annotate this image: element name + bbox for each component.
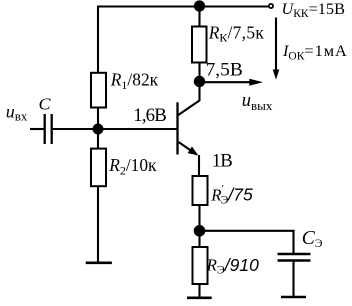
svg-text:R1/82к: R1/82к	[110, 70, 159, 92]
terminal UKK open circle	[269, 4, 273, 8]
svg-text:C: C	[39, 94, 52, 113]
capacitor C	[45, 114, 52, 144]
resistor R2	[91, 149, 106, 187]
node junction on rail above RK	[194, 0, 205, 11]
transistor collector lead	[178, 101, 200, 116]
resistor RE	[193, 247, 208, 284]
svg-text:R′Э/75: R′Э/75	[210, 183, 253, 207]
output arrow uvyh	[203, 79, 263, 86]
wire base node to R2	[97, 129, 99, 148]
ground below R2	[86, 261, 112, 264]
svg-text:1,6В: 1,6В	[133, 105, 166, 126]
wire R'E to emitter node	[198, 205, 200, 231]
transistor base bar	[176, 102, 178, 154]
wire capacitor to base node	[53, 128, 98, 130]
svg-text:RК/7,5к: RК/7,5к	[208, 22, 265, 44]
transistor emitter lead with arrow	[179, 142, 200, 177]
wire RE to ground	[198, 284, 200, 297]
node emitter junction	[194, 225, 206, 237]
current arrow IOK	[273, 18, 280, 80]
resistor RK	[192, 27, 207, 63]
ground below CE	[281, 296, 306, 299]
svg-text:7,5В: 7,5В	[206, 60, 243, 81]
wire top rail from R1 branch to UKK terminal	[98, 7, 269, 73]
svg-text:1В: 1В	[212, 150, 233, 171]
resistor R1	[91, 73, 106, 108]
wire CE to ground	[292, 262, 294, 297]
wire emitter node to CE	[204, 231, 294, 253]
node base junction	[93, 124, 104, 135]
wire input to capacitor C	[30, 128, 44, 130]
wire R1 to base node	[97, 108, 99, 130]
wire emitter to R'E	[198, 176, 200, 177]
node collector junction	[194, 76, 205, 87]
wire rail to RK	[198, 6, 200, 27]
resistor R'E	[193, 176, 208, 205]
capacitor CE	[278, 254, 311, 261]
svg-text:UКК=15В: UКК=15В	[282, 0, 346, 20]
wire R2 to ground	[97, 186, 99, 262]
wire base node to transistor base	[98, 128, 177, 130]
ground below RE	[187, 296, 212, 299]
svg-text:R2/10к: R2/10к	[108, 155, 157, 177]
svg-text:RЭ/910: RЭ/910	[206, 255, 260, 276]
wire RK to collector node	[198, 63, 200, 83]
wire emitter node to RE	[198, 231, 200, 247]
wire collector node down	[198, 82, 200, 102]
